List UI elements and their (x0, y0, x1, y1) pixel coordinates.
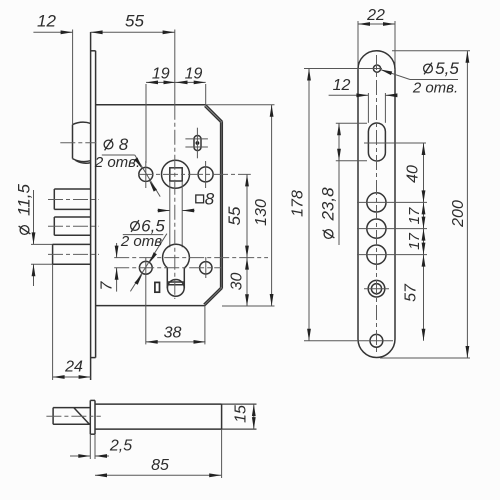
screw hole D8 left (139, 167, 153, 181)
svg-text:12: 12 (333, 77, 351, 94)
svg-text:23,8: 23,8 (319, 187, 338, 222)
follower (square spindle hub) (162, 160, 190, 247)
guide bolt 1 (54, 189, 90, 209)
svg-text:8: 8 (205, 190, 215, 209)
dim square 8 (158, 190, 215, 213)
dim 12 / 55 (top) (33, 12, 174, 125)
svg-text:7: 7 (99, 280, 116, 290)
dim 55 / 30 (vertical chain) (225, 174, 249, 306)
svg-text:130: 130 (253, 199, 270, 226)
label D5,5 2 otv leader (380, 59, 460, 97)
svg-text:24: 24 (64, 359, 83, 376)
faceplate oblong slot 12x23,8 (368, 123, 385, 161)
RIGHT VIEW: faceplate (358, 21, 395, 358)
guide bolt 2 (54, 217, 90, 235)
centerlines right view (376, 55, 378, 352)
svg-text:2 отв: 2 отв (120, 233, 162, 250)
screw hole D6,5 right (200, 262, 212, 274)
dim 19 19 (146, 66, 206, 164)
centerlines main view (174, 30, 176, 105)
screw hole D6,5 left (139, 261, 152, 274)
svg-text:12: 12 (37, 12, 56, 31)
faceplate hole 2 (367, 219, 386, 238)
dim 38 (146, 258, 206, 345)
MAIN FRONT VIEW: lock case (91, 32, 223, 380)
svg-text:2 отв.: 2 отв. (412, 80, 458, 97)
dim 200 (380, 51, 470, 358)
faceplate bottom screw hole D5,5 (370, 334, 383, 347)
screw hole D8 right (198, 167, 213, 182)
dim chain 40 17 17 57 (403, 143, 426, 341)
faceplate top screw hole D5,5 (373, 65, 380, 72)
svg-text:2 отв.: 2 отв. (94, 154, 140, 171)
svg-text:30: 30 (229, 273, 246, 291)
dim 7 (99, 243, 119, 292)
latch bolt (front view, bevel arcs) (73, 122, 91, 163)
BOTTOM VIEW (46, 400, 256, 478)
dim 24 (53, 359, 91, 379)
label D8 2 otv with leader (94, 135, 160, 197)
dim 22 (358, 7, 395, 26)
faceplate countersunk hole (368, 280, 385, 297)
latch centerline (60, 142, 96, 144)
dim 85 (95, 457, 221, 477)
svg-text:200: 200 (450, 200, 467, 228)
svg-text:55: 55 (225, 206, 244, 225)
svg-text:15: 15 (233, 405, 250, 423)
svg-text:85: 85 (151, 457, 169, 474)
svg-text:55: 55 (125, 12, 144, 31)
svg-text:5,5: 5,5 (435, 59, 459, 78)
svg-text:17: 17 (406, 207, 423, 224)
svg-text:2,5: 2,5 (109, 438, 132, 455)
svg-text:19: 19 (185, 66, 203, 83)
dim D23,8 (319, 123, 368, 245)
dim 12 (slot) (329, 77, 398, 123)
dim 15 (233, 404, 256, 429)
deadbolt (31, 244, 91, 380)
faceplate hole 1 (367, 193, 386, 212)
euro cylinder hole (163, 244, 190, 296)
svg-text:19: 19 (152, 66, 170, 83)
svg-text:38: 38 (164, 324, 182, 341)
top oval slot with dot (185, 128, 208, 159)
svg-text:57: 57 (403, 283, 420, 302)
svg-text:40: 40 (405, 165, 422, 183)
svg-text:11,5: 11,5 (15, 184, 34, 216)
faceplate hole 3 (367, 245, 386, 264)
svg-text:22: 22 (366, 7, 385, 24)
dim 2,5 (70, 438, 132, 458)
label D6,5 2 otv with leader (120, 217, 167, 292)
svg-text:8: 8 (119, 135, 129, 154)
svg-text:17: 17 (406, 233, 423, 250)
dim 130 (206, 105, 275, 306)
dim D11,5 (15, 184, 36, 286)
dim 178 (290, 69, 311, 341)
small slot left of cylinder (155, 282, 160, 292)
svg-text:178: 178 (290, 190, 307, 217)
